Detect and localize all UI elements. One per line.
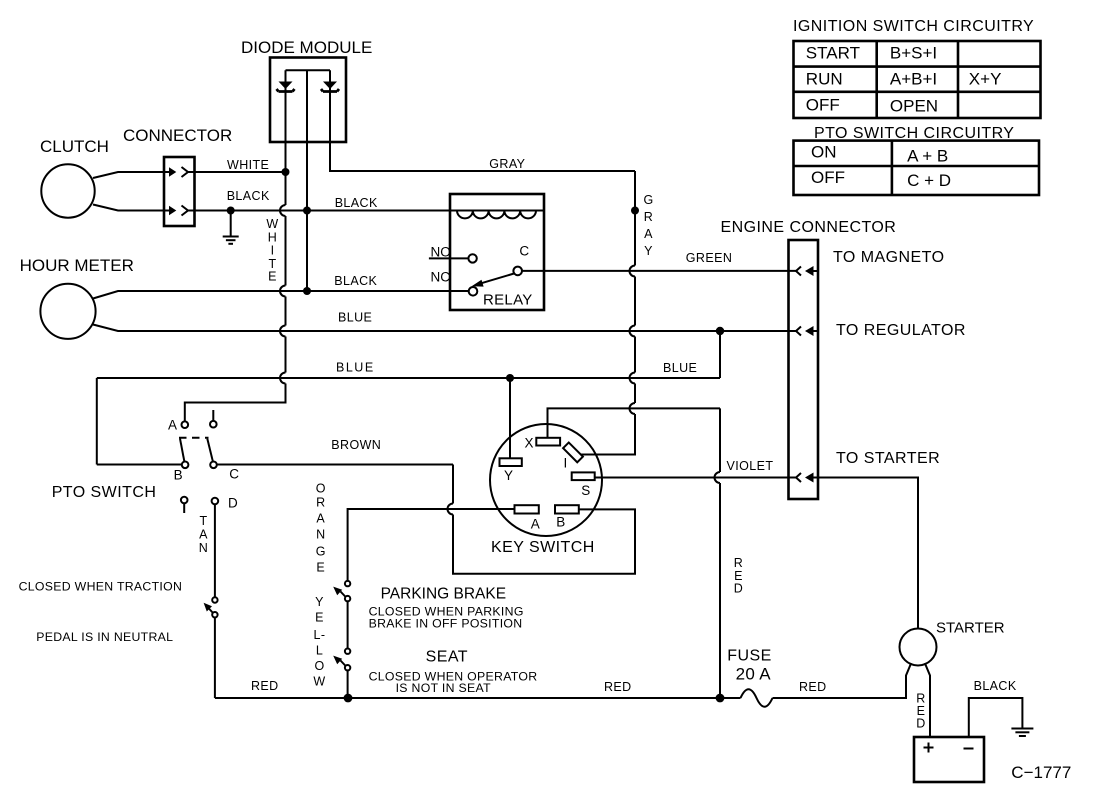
pto switch B terminal (182, 462, 189, 469)
table ignition cells (806, 44, 1002, 116)
svg-text:TO REGULATOR: TO REGULATOR (836, 322, 966, 339)
seat switch blade arrow (341, 661, 346, 667)
wire pto B to blue riser (97, 464, 182, 466)
diode D1 symbol (277, 82, 295, 92)
svg-text:START: START (806, 44, 860, 63)
svg-text:A: A (531, 516, 540, 531)
svg-text:OFF: OFF (806, 95, 840, 114)
svg-text:PEDAL IS IN NEUTRAL: PEDAL IS IN NEUTRAL (36, 630, 173, 644)
svg-text:OFF: OFF (811, 168, 845, 187)
svg-text:OPEN: OPEN (890, 97, 938, 116)
pto switch blade C (207, 439, 213, 462)
parking brake switch lower contact (345, 596, 350, 601)
svg-text:VIOLET: VIOLET (727, 459, 774, 473)
key switch Y terminal (500, 458, 522, 466)
svg-text:I: I (271, 244, 275, 258)
node ground tap (227, 207, 235, 215)
svg-text:G: G (643, 193, 653, 207)
node blue-regulator junction (716, 327, 724, 335)
svg-text:CLUTCH: CLUTCH (40, 137, 109, 156)
key switch circle (490, 424, 602, 536)
svg-text:CLOSED WHEN TRACTION: CLOSED WHEN TRACTION (19, 580, 183, 594)
svg-text:BLUE: BLUE (336, 361, 375, 375)
svg-text:G: G (316, 545, 326, 559)
starter M1 circle (900, 629, 937, 666)
relay C terminal (513, 267, 522, 276)
svg-text:RUN: RUN (806, 69, 843, 88)
svg-text:CONNECTOR: CONNECTOR (123, 126, 232, 145)
svg-text:X: X (525, 436, 534, 451)
svg-text:D: D (228, 496, 238, 511)
relay NO terminal (429, 257, 468, 259)
svg-text:N: N (199, 541, 208, 555)
svg-text:E: E (315, 611, 324, 625)
svg-text:A: A (199, 528, 208, 542)
wire starter feed from connector (818, 478, 918, 629)
wire red: fuse to starter (773, 663, 912, 698)
svg-text:TO STARTER: TO STARTER (836, 450, 940, 467)
svg-text:RED: RED (604, 680, 632, 694)
svg-text:NC: NC (431, 270, 451, 285)
svg-text:DIODE MODULE: DIODE MODULE (241, 38, 372, 57)
engine connector box (789, 240, 819, 499)
ground symbol left (223, 211, 239, 244)
svg-text:B: B (556, 514, 565, 529)
svg-text:R: R (644, 210, 653, 224)
svg-text:O: O (314, 659, 324, 673)
svg-text:GRAY: GRAY (489, 157, 525, 171)
svg-text:PARKING BRAKE: PARKING BRAKE (381, 586, 506, 603)
svg-text:W: W (313, 675, 325, 689)
pto switch A terminal (182, 421, 189, 428)
wire clutch to connector black pin (93, 205, 170, 211)
svg-text:IGNITION SWITCH CIRCUITRY: IGNITION SWITCH CIRCUITRY (793, 18, 1034, 35)
svg-text:PTO SWITCH: PTO SWITCH (52, 484, 157, 501)
table ignition grid (794, 41, 1041, 118)
label GRAY vertical (643, 193, 653, 258)
svg-text:BLUE: BLUE (338, 311, 372, 325)
wire yellow: parking brake to seat switch (347, 601, 349, 648)
fuse F1 symbol (741, 689, 773, 707)
parking brake switch upper contact (345, 581, 350, 586)
connector box (164, 157, 195, 226)
diode D2 symbol (321, 82, 339, 92)
svg-text:L: L (316, 644, 323, 658)
relay K1 box (450, 194, 544, 310)
wire Y drop from blue (509, 378, 511, 458)
svg-text:TO MAGNETO: TO MAGNETO (833, 249, 944, 266)
svg-text:B+S+I: B+S+I (890, 44, 937, 63)
label RED vertical (battery feed) (916, 692, 925, 731)
wire gray bus with hops (581, 171, 635, 455)
engine connector magneto pin (796, 266, 818, 276)
ground symbol right (1011, 729, 1033, 737)
svg-text:ON: ON (811, 142, 837, 161)
svg-text:HOUR METER: HOUR METER (20, 256, 134, 275)
wire red: traction switch to bottom rail (214, 617, 216, 698)
wire black: battery negative to ground (969, 698, 1023, 737)
svg-text:X+Y: X+Y (969, 69, 1002, 88)
starter right leg to battery (925, 663, 930, 737)
traction switch lower contact (212, 612, 217, 617)
node white junction (282, 168, 290, 176)
key switch I terminal (diamond) (563, 443, 583, 463)
svg-text:A: A (316, 512, 325, 526)
seat switch upper contact (345, 649, 350, 654)
svg-text:C−1777: C−1777 (1011, 763, 1071, 782)
wire tan: D down to traction switch (214, 504, 216, 597)
svg-text:W: W (266, 217, 278, 231)
svg-text:20 A: 20 A (736, 665, 772, 684)
svg-text:Y: Y (644, 244, 653, 258)
wire blue: hour meter to engine connector regulator pin (93, 325, 797, 332)
node gray-black junction (631, 207, 639, 215)
diode D1 anode line (white wire) with hops, runs to PTO A (185, 70, 286, 421)
pto switch stub terminal top (212, 410, 214, 421)
svg-text:BLACK: BLACK (335, 196, 378, 210)
parking brake blade arrow (341, 592, 346, 598)
hour meter circle (40, 284, 95, 339)
wire white: connector to diode line (188, 171, 286, 173)
svg-text:R: R (316, 496, 325, 510)
key switch S terminal (572, 472, 595, 480)
svg-text:STARTER: STARTER (936, 620, 1005, 637)
svg-text:A + B: A + B (907, 146, 948, 165)
svg-text:NO: NO (431, 244, 451, 259)
svg-text:C: C (519, 244, 529, 259)
key switch B terminal (555, 505, 579, 513)
node blue-Y junction (506, 374, 514, 382)
svg-text:RED: RED (799, 680, 827, 694)
label ORANGE vertical (316, 482, 326, 575)
battery + terminal (924, 743, 934, 753)
traction switch upper contact (212, 597, 217, 602)
svg-text:BRAKE IN OFF POSITION: BRAKE IN OFF POSITION (369, 617, 523, 631)
svg-text:BLACK: BLACK (227, 189, 270, 203)
pto switch mechanical link (dashed) (179, 437, 209, 439)
wire black: connector to relay coil (188, 210, 450, 212)
table pto cells (811, 142, 951, 190)
key switch X terminal (536, 438, 560, 446)
wire blue lower: pto B to regulator link (97, 331, 720, 465)
wire clutch to connector white pin (93, 172, 170, 178)
svg-text:I: I (564, 456, 568, 471)
engine connector starter pin (796, 473, 818, 483)
connector white pin arrows (169, 167, 176, 176)
wire key A to parking brake chain (348, 509, 515, 581)
diode module middle line (306, 70, 308, 291)
svg-text:RED: RED (251, 679, 279, 693)
svg-text:C: C (229, 466, 239, 481)
wire black: hour meter to relay NC (93, 291, 469, 299)
wire seat switch to red rail (347, 670, 349, 698)
svg-text:S: S (581, 483, 590, 498)
seat switch lower contact (345, 665, 350, 670)
svg-text:C + D: C + D (907, 171, 951, 190)
node seat-red junction (344, 694, 353, 703)
svg-text:BLACK: BLACK (974, 679, 1017, 693)
table pto grid (794, 141, 1040, 195)
node black-diode mid junction (303, 287, 311, 295)
svg-text:R: R (734, 556, 743, 570)
key switch A terminal (515, 505, 539, 513)
wire violet: key S to engine connector (595, 477, 797, 479)
svg-text:SEAT: SEAT (426, 649, 468, 666)
svg-text:RELAY: RELAY (483, 292, 533, 309)
svg-text:BROWN: BROWN (331, 438, 381, 452)
wire green: relay C to engine connector (522, 270, 797, 272)
connector black pin arrows (169, 206, 176, 215)
svg-text:T: T (199, 514, 207, 528)
svg-text:WHITE: WHITE (227, 158, 269, 172)
battery BT1 box (914, 737, 984, 782)
svg-text:B: B (174, 468, 183, 483)
node black-diode junction (303, 207, 311, 215)
wire red bottom rail (215, 697, 741, 699)
relay blade C to NC (481, 274, 514, 284)
svg-text:ENGINE CONNECTOR: ENGINE CONNECTOR (721, 219, 897, 236)
svg-text:BLUE: BLUE (663, 361, 697, 375)
wire drop to fuse with hop over violet (715, 408, 721, 698)
svg-text:E: E (316, 561, 325, 575)
svg-text:O: O (316, 482, 326, 496)
label TAN vertical (199, 514, 208, 555)
relay NC terminal (469, 287, 478, 296)
wire X: key switch X up and over to fuse drop (548, 408, 721, 437)
clutch circle (41, 164, 94, 217)
relay coil (450, 211, 544, 219)
wire brown: pto C to key B routed around label (217, 465, 635, 574)
svg-text:FUSE: FUSE (727, 648, 771, 665)
traction switch blade arrow (208, 608, 213, 614)
svg-text:N: N (316, 528, 325, 542)
diode module box (270, 58, 346, 143)
diode module top bar (286, 69, 331, 71)
svg-text:Y: Y (504, 468, 513, 483)
svg-text:H: H (268, 231, 277, 245)
svg-text:D: D (916, 717, 925, 731)
pto switch D terminal (212, 498, 219, 505)
svg-text:GREEN: GREEN (686, 251, 732, 265)
pto switch blade B (180, 439, 184, 462)
svg-text:A+B+I: A+B+I (890, 69, 937, 88)
diode D2 line (to gray wire) (330, 70, 635, 171)
battery - terminal (964, 748, 974, 750)
label RED vertical (fuse drop) (734, 556, 743, 596)
pto switch stub terminal lower-left (181, 497, 188, 504)
svg-text:D: D (734, 582, 743, 596)
svg-text:E: E (268, 270, 277, 284)
svg-text:BLACK: BLACK (334, 274, 377, 288)
svg-text:L-: L- (314, 628, 326, 642)
node fuse drop junction (716, 694, 725, 703)
svg-text:A: A (644, 227, 653, 241)
label YELLOW vertical (313, 595, 325, 689)
label WHITE vertical (266, 217, 278, 284)
svg-text:IS NOT IN SEAT: IS NOT IN SEAT (396, 681, 491, 695)
svg-text:A: A (168, 418, 177, 433)
svg-text:KEY SWITCH: KEY SWITCH (491, 539, 595, 556)
pto switch C terminal (210, 462, 217, 469)
engine connector regulator pin (796, 326, 818, 336)
svg-text:Y: Y (315, 595, 324, 609)
